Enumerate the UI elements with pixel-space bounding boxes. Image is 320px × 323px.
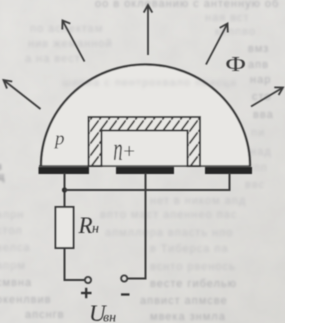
left contact bbox=[39, 167, 90, 174]
plus terminal bbox=[85, 277, 91, 283]
svg-text:n: n bbox=[113, 131, 122, 168]
label + bbox=[81, 288, 92, 298]
minus terminal bbox=[121, 275, 127, 281]
flux arrow left bbox=[4, 80, 41, 109]
n+ cap hatched region bbox=[89, 117, 201, 166]
photodiode dome (p region hemisphere) bbox=[41, 65, 250, 167]
middle contact bbox=[116, 167, 174, 174]
svg-text:p: p bbox=[53, 129, 65, 150]
svg-text:R: R bbox=[78, 213, 93, 238]
wire: middle contact to minus terminal bbox=[128, 173, 146, 279]
label - bbox=[121, 293, 130, 295]
wire: bus from junction to right contact bbox=[65, 173, 230, 190]
junction dot bbox=[62, 187, 67, 192]
flux arrow upper-right bbox=[206, 24, 228, 65]
base line bbox=[39, 165, 251, 167]
wire: left contact down to resistor bbox=[64, 173, 66, 207]
svg-text:н: н bbox=[92, 222, 99, 237]
svg-text:Φ: Φ bbox=[226, 53, 246, 76]
wire: resistor to plus terminal bbox=[65, 248, 85, 280]
svg-text:+: + bbox=[123, 139, 135, 163]
ghost bleed-through text lines (decorative background) bbox=[95, 0, 279, 10]
flux arrow upper-left bbox=[62, 21, 84, 62]
right contact bbox=[205, 167, 252, 174]
flux arrow right bbox=[251, 87, 283, 106]
svg-text:шипиа с пентрохвало пвисца: шипиа с пентрохвало пвисца bbox=[62, 77, 237, 89]
svg-text:вн: вн bbox=[103, 311, 116, 323]
resistor RH bbox=[56, 207, 74, 248]
flux arrow top bbox=[144, 5, 153, 55]
